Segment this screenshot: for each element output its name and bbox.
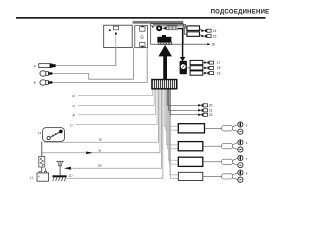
svg-text:16: 16 bbox=[211, 43, 215, 47]
svg-text:ПОДСОЕДИНЕНИЕ: ПОДСОЕДИНЕНИЕ bbox=[211, 10, 270, 16]
svg-text:14: 14 bbox=[213, 29, 217, 33]
svg-text:18: 18 bbox=[217, 66, 221, 70]
svg-text:10): 10) bbox=[98, 164, 102, 168]
svg-text:22: 22 bbox=[209, 113, 213, 117]
svg-text:11): 11) bbox=[69, 174, 73, 178]
svg-text:d): d) bbox=[73, 113, 76, 117]
svg-text:G: G bbox=[141, 35, 144, 40]
svg-text:1): 1) bbox=[34, 64, 37, 68]
svg-text:13: 13 bbox=[38, 131, 42, 135]
svg-text:20: 20 bbox=[209, 104, 213, 108]
svg-text:21: 21 bbox=[209, 109, 213, 113]
svg-text:19: 19 bbox=[217, 71, 221, 75]
svg-text:e): e) bbox=[70, 123, 73, 127]
svg-text:+: + bbox=[38, 175, 40, 179]
svg-text:9): 9) bbox=[99, 149, 102, 153]
svg-text:15: 15 bbox=[213, 34, 217, 38]
svg-text:c): c) bbox=[73, 104, 75, 108]
svg-text:17: 17 bbox=[217, 61, 221, 65]
svg-text:b): b) bbox=[73, 94, 76, 98]
svg-text:12: 12 bbox=[30, 176, 34, 180]
svg-text:-: - bbox=[44, 175, 45, 179]
svg-text:8): 8) bbox=[99, 138, 102, 142]
svg-text:4): 4) bbox=[34, 81, 37, 85]
